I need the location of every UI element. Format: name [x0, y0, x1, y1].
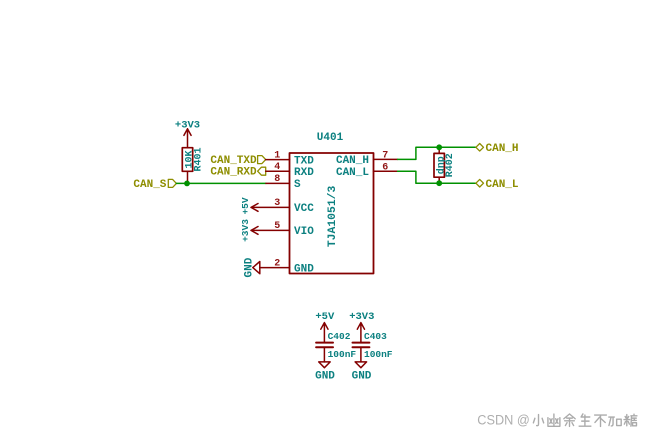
- svg-text:R401: R401: [193, 147, 204, 171]
- svg-text:VIO: VIO: [294, 226, 314, 238]
- IC U401 body: [290, 132, 374, 274]
- svg-text:2: 2: [274, 258, 280, 269]
- svg-text:TJA1051/3: TJA1051/3: [327, 185, 339, 247]
- capacitor C402: [316, 331, 356, 362]
- svg-text:+3V3: +3V3: [349, 311, 374, 323]
- pin 6 CAN_L: [336, 162, 398, 179]
- svg-text:U401: U401: [317, 132, 344, 144]
- svg-text:4: 4: [274, 162, 280, 173]
- svg-text:CAN_L: CAN_L: [486, 179, 519, 191]
- svg-text:7: 7: [382, 151, 388, 162]
- svg-text:100nF: 100nF: [364, 349, 393, 360]
- ground GND at C403: [352, 362, 372, 382]
- svg-text:GND: GND: [315, 370, 335, 382]
- pin 1 TXD: [266, 150, 315, 167]
- svg-text:CAN_S: CAN_S: [133, 179, 166, 191]
- label CAN_S: [133, 179, 176, 191]
- label CAN_H: [476, 143, 519, 155]
- svg-text:+5V: +5V: [240, 197, 251, 214]
- power +3V3 top: [175, 119, 200, 147]
- power +3V3 at pin 5: [240, 219, 258, 242]
- svg-text:CAN_H: CAN_H: [486, 143, 519, 155]
- svg-text:8: 8: [274, 174, 280, 185]
- pin 3 VCC: [252, 198, 314, 215]
- pin 4 RXD: [266, 162, 315, 179]
- svg-text:RXD: RXD: [294, 167, 314, 179]
- power +5V at pin 3: [240, 197, 258, 214]
- svg-text:100nF: 100nF: [328, 349, 357, 360]
- svg-text:CAN_TXD: CAN_TXD: [210, 155, 257, 167]
- svg-text:CSDN @: CSDN @: [477, 412, 530, 427]
- wire pin6 to CAN_L: [398, 171, 476, 183]
- pin 7 CAN_H: [336, 151, 398, 168]
- svg-text:6: 6: [382, 162, 388, 173]
- resistor R402: [434, 147, 456, 183]
- svg-text:+5V: +5V: [315, 311, 335, 323]
- ground GND at C402: [315, 362, 335, 382]
- svg-text:C403: C403: [364, 331, 387, 342]
- svg-text:CAN_H: CAN_H: [336, 155, 369, 167]
- wire R401 lead to junction: [187, 171, 189, 183]
- svg-text:3: 3: [274, 198, 280, 209]
- svg-text:5: 5: [274, 221, 280, 232]
- junction CAN_S: [184, 181, 190, 187]
- pin 2 GND: [260, 258, 314, 275]
- watermark CSDN: [477, 412, 530, 427]
- svg-text:R402: R402: [445, 153, 456, 177]
- ground GND at pin 2: [243, 257, 259, 277]
- power +5V at C402: [315, 311, 335, 342]
- power +3V3 at C403: [349, 311, 374, 342]
- svg-text:+3V3: +3V3: [240, 219, 251, 242]
- label CAN_L: [476, 179, 519, 191]
- junction R402 top: [436, 144, 442, 150]
- pin 8 S: [266, 174, 301, 191]
- label CAN_RXD: [210, 167, 265, 179]
- svg-text:GND: GND: [243, 257, 255, 277]
- junction R402 bottom: [436, 180, 442, 186]
- label CAN_TXD: [210, 155, 265, 167]
- wire pin7 to CAN_H: [398, 147, 476, 159]
- svg-text:CAN_RXD: CAN_RXD: [210, 167, 257, 179]
- watermark chinese characters: [533, 414, 637, 427]
- svg-text:CAN_L: CAN_L: [336, 167, 369, 179]
- wire CAN_S to pin 8: [176, 182, 266, 184]
- resistor R401: [182, 147, 204, 171]
- svg-text:C402: C402: [328, 331, 351, 342]
- svg-text:S: S: [294, 179, 301, 191]
- svg-text:1: 1: [274, 150, 280, 161]
- capacitor C403: [353, 331, 393, 362]
- svg-text:GND: GND: [352, 370, 372, 382]
- svg-text:GND: GND: [294, 263, 314, 275]
- svg-text:TXD: TXD: [294, 155, 314, 167]
- svg-text:VCC: VCC: [294, 203, 314, 215]
- pin 5 VIO: [252, 221, 314, 238]
